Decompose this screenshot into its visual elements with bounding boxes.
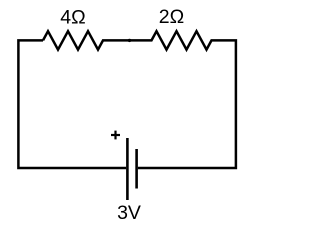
svg-text:2Ω: 2Ω <box>159 6 184 28</box>
svg-text:3V: 3V <box>117 202 141 224</box>
svg-text:4Ω: 4Ω <box>60 7 85 29</box>
